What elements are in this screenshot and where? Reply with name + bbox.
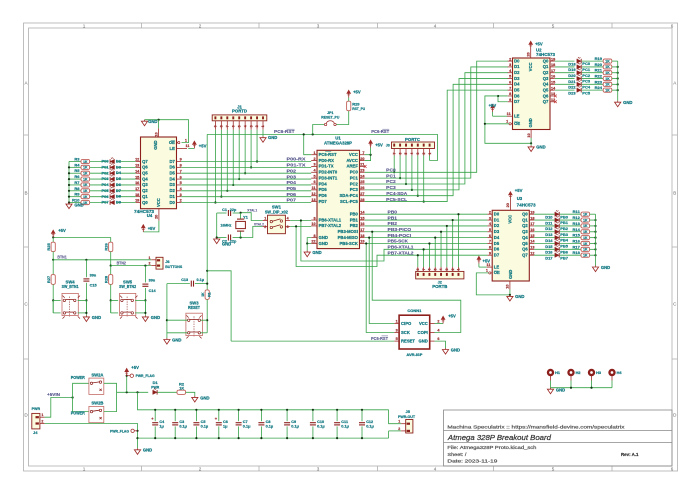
svg-text:PB6-XTAL1: PB6-XTAL1 xyxy=(319,217,342,222)
svg-text:R16: R16 xyxy=(572,238,580,243)
wire cap C9 vertical xyxy=(286,410,288,421)
svg-text:Q0: Q0 xyxy=(543,58,549,63)
wire RST vertical from J1 area xyxy=(206,134,208,290)
U2 pins xyxy=(508,57,556,127)
svg-text:11: 11 xyxy=(507,112,511,116)
svg-text:27: 27 xyxy=(360,192,364,196)
junction GND bus row 4 xyxy=(68,184,70,186)
junction +5VIN split xyxy=(72,396,74,398)
svg-text:P03: P03 xyxy=(287,174,297,180)
svg-text:2: 2 xyxy=(422,153,426,155)
J1 pin squares and stubs xyxy=(214,116,266,129)
resistor R28 xyxy=(109,275,113,285)
svg-text:J5: J5 xyxy=(406,409,411,414)
svg-text:0.1μ: 0.1μ xyxy=(366,425,374,429)
svg-text:+5V: +5V xyxy=(448,313,456,318)
svg-text:D21: D21 xyxy=(568,79,576,84)
wire bottom rail segment 9 xyxy=(362,437,389,439)
wire R29 to +5V xyxy=(348,98,350,102)
PWR_FLAG top symbol xyxy=(127,374,134,377)
capacitor C7 xyxy=(236,423,242,425)
junction SCK xyxy=(365,242,367,244)
junction J3 PC5 xyxy=(423,200,425,202)
svg-text:GND: GND xyxy=(418,338,427,343)
svg-text:AVCC: AVCC xyxy=(346,158,358,163)
svg-text:6: 6 xyxy=(398,153,402,155)
LED D4 xyxy=(110,169,114,175)
svg-text:1K: 1K xyxy=(583,236,588,240)
ground below SW3 xyxy=(164,338,170,344)
wire cap C4 vertical xyxy=(154,410,156,421)
svg-text:11: 11 xyxy=(185,144,189,148)
svg-text:4: 4 xyxy=(439,268,443,270)
junction PB7 riser xyxy=(417,254,419,256)
svg-text:VCC: VCC xyxy=(349,152,358,157)
wire row P05 resistor to LED to U4 xyxy=(69,190,81,192)
svg-text:PB1: PB1 xyxy=(388,215,398,221)
wire R28 to SW5 xyxy=(110,284,112,313)
svg-text:R4: R4 xyxy=(74,162,80,167)
svg-text:D4: D4 xyxy=(116,170,122,175)
svg-text:R12: R12 xyxy=(572,215,580,220)
junction SW4 right top xyxy=(85,299,87,301)
connector J1 PORTD body xyxy=(212,115,267,121)
svg-text:1K: 1K xyxy=(201,292,205,297)
junction cap C4 bottom xyxy=(154,437,156,439)
SW1 pin stubs xyxy=(263,217,291,230)
wire U2 Q1 to LED D19 xyxy=(555,66,575,68)
LED D12 xyxy=(555,222,559,228)
svg-text:H1: H1 xyxy=(555,371,560,375)
svg-text:1: 1 xyxy=(457,268,461,270)
svg-text:LE: LE xyxy=(514,114,520,119)
junction GND bus row 3 xyxy=(68,178,70,180)
wire LED D21 to R22 xyxy=(582,78,604,80)
svg-text:1: 1 xyxy=(313,151,315,155)
no-connect AREF xyxy=(364,165,367,168)
C15 labels xyxy=(90,273,97,287)
ground below U3 xyxy=(507,295,513,301)
wire U2 Q3 to LED D21 xyxy=(555,78,575,80)
svg-text:+5VIN: +5VIN xyxy=(47,392,60,397)
wire mounting hole bus xyxy=(551,387,613,389)
wire J2 riser PB0 xyxy=(457,214,459,267)
LED D20 labels xyxy=(568,73,591,78)
svg-text:D7: D7 xyxy=(170,159,176,164)
wire top rail segment 2 xyxy=(196,409,218,411)
svg-text:8: 8 xyxy=(313,234,315,238)
svg-text:R27: R27 xyxy=(46,275,51,283)
junction GND bus row 7 xyxy=(68,201,70,203)
wire net PC2 xyxy=(365,73,508,184)
+5V power at U4 LE xyxy=(193,141,197,148)
svg-text:1: 1 xyxy=(41,413,43,417)
svg-text:13: 13 xyxy=(135,164,139,168)
svg-text:D2: D2 xyxy=(514,70,520,75)
connector CONN1 body xyxy=(399,315,430,349)
junction cap C7 bottom xyxy=(238,437,240,439)
junction J3 PC2 xyxy=(405,183,407,185)
svg-text:C12: C12 xyxy=(366,420,373,424)
+5V power at R29 xyxy=(347,90,351,97)
LED D17 xyxy=(555,251,559,257)
junction cap C4 top xyxy=(154,409,156,411)
svg-text:18: 18 xyxy=(135,193,139,197)
svg-text:2: 2 xyxy=(451,268,455,270)
svg-text:D7: D7 xyxy=(116,188,122,193)
svg-text:P00-RX: P00-RX xyxy=(287,157,307,163)
svg-text:Q2: Q2 xyxy=(543,70,549,75)
svg-text:0.1μ: 0.1μ xyxy=(266,425,274,429)
svg-text:0.1μ: 0.1μ xyxy=(291,425,299,429)
svg-text:3: 3 xyxy=(317,466,320,471)
LED D15 labels xyxy=(545,244,569,249)
svg-text:+5V: +5V xyxy=(483,259,491,264)
svg-text:R15: R15 xyxy=(572,233,580,238)
svg-text:GND: GND xyxy=(508,270,513,279)
ground below crystal xyxy=(214,238,220,244)
+5V power buttons xyxy=(51,230,55,237)
wire U3 Q1 to LED D11 xyxy=(534,219,554,221)
svg-text:AVR-ISP: AVR-ISP xyxy=(406,353,422,357)
svg-text:PD1-TX: PD1-TX xyxy=(319,164,334,169)
IC U3 74HC573 body xyxy=(492,210,529,281)
wire SW3 right pins xyxy=(201,319,208,321)
svg-text:3: 3 xyxy=(287,225,289,229)
wire net PB7 from XTAL2 xyxy=(296,226,487,266)
junction PB1 riser xyxy=(452,219,454,221)
capacitor C11 xyxy=(334,423,340,425)
svg-text:PORTB: PORTB xyxy=(432,284,447,289)
LED D1 PWR xyxy=(153,388,157,394)
wire R14 to GND bus xyxy=(590,231,596,233)
svg-text:RESET_PU: RESET_PU xyxy=(321,115,339,119)
svg-text:Y1: Y1 xyxy=(243,214,249,219)
svg-text:R22: R22 xyxy=(595,74,603,79)
svg-text:PB3: PB3 xyxy=(560,232,569,237)
svg-text:1K: 1K xyxy=(583,253,588,257)
svg-text:Q0: Q0 xyxy=(142,200,148,205)
resistor R2 xyxy=(177,390,186,394)
svg-text:6: 6 xyxy=(671,23,674,28)
svg-text:PD6: PD6 xyxy=(319,193,328,198)
SW3 contacts xyxy=(186,315,201,338)
svg-text:74HC573: 74HC573 xyxy=(517,203,537,208)
junction cap C11 bottom xyxy=(336,437,338,439)
svg-text:4: 4 xyxy=(287,217,289,221)
junction U3 GND bus row 5 xyxy=(594,242,596,244)
svg-text:1K: 1K xyxy=(583,224,588,228)
capacitor C9 xyxy=(284,423,290,425)
junction PB5 riser xyxy=(428,242,430,244)
svg-text:PD7: PD7 xyxy=(319,199,328,204)
svg-text:20: 20 xyxy=(360,157,364,161)
svg-text:PB0: PB0 xyxy=(350,212,359,217)
resistor R14 xyxy=(581,230,590,234)
U4 pin 11 LE stub xyxy=(177,144,190,148)
svg-text:9: 9 xyxy=(509,98,511,102)
LED D7 labels xyxy=(101,188,121,193)
junction SW5 right bottom xyxy=(144,312,146,314)
svg-text:C15: C15 xyxy=(90,284,97,288)
junction J1 pin5 xyxy=(238,178,240,180)
wire net PB1 xyxy=(365,219,488,221)
svg-text:17: 17 xyxy=(530,222,534,226)
svg-text:Q1: Q1 xyxy=(522,217,528,222)
junction U2 GND bus row 1 xyxy=(617,66,619,68)
wire MOSI riser to CONN1 xyxy=(372,232,461,333)
svg-text:GND: GND xyxy=(319,235,328,240)
svg-text:PB5-SCK: PB5-SCK xyxy=(388,239,409,245)
wire net P07 from U4 to U1 xyxy=(181,202,311,204)
svg-text:0.1μ: 0.1μ xyxy=(197,278,205,282)
capacitor C3 xyxy=(172,423,178,425)
wire cap C8 vertical xyxy=(260,410,262,421)
resistor R15 xyxy=(581,236,590,240)
svg-text:PB7: PB7 xyxy=(560,255,569,260)
resistor R3 xyxy=(81,159,90,163)
svg-text:PB2: PB2 xyxy=(388,221,398,227)
svg-text:H3: H3 xyxy=(596,371,601,375)
svg-text:PC2: PC2 xyxy=(386,179,396,185)
svg-text:PC5: PC5 xyxy=(582,90,591,95)
svg-text:D22: D22 xyxy=(568,85,576,90)
wire U3 Q5 to LED D15 xyxy=(534,242,554,244)
wire U4 OE to GND loop xyxy=(145,120,189,143)
svg-text:6: 6 xyxy=(489,234,491,238)
junction U2 GND bus row 2 xyxy=(617,72,619,74)
wire J1 pin3 to P01 row xyxy=(250,130,252,168)
wire J1 pin2 to P00 row xyxy=(256,130,258,162)
svg-text:15: 15 xyxy=(530,234,534,238)
wire row P03 resistor to LED to U4 xyxy=(69,178,81,180)
svg-text:3: 3 xyxy=(396,329,398,333)
junction U3 GND bus row 2 xyxy=(594,225,596,227)
svg-text:P03: P03 xyxy=(101,176,109,181)
svg-text:PWR_FLAG: PWR_FLAG xyxy=(136,373,155,378)
svg-text:2: 2 xyxy=(149,262,151,266)
wire J4 pin1 to switches xyxy=(45,398,73,418)
wire U3 Q6 to LED D16 xyxy=(534,248,554,250)
wire to R26 xyxy=(110,237,112,242)
svg-text:C7: C7 xyxy=(243,420,248,424)
wire to SW2B xyxy=(73,398,89,412)
wire U2 D6 to OE GND leg xyxy=(485,96,531,143)
resistor R8 xyxy=(81,189,90,193)
wire top rail segment 1 xyxy=(175,409,196,411)
svg-text:1K: 1K xyxy=(83,166,88,170)
svg-text:PC4-SDA: PC4-SDA xyxy=(386,191,408,197)
svg-text:POWER: POWER xyxy=(71,411,85,416)
svg-text:P01-TX: P01-TX xyxy=(287,163,307,169)
wire U3 OE to GND xyxy=(476,273,510,295)
wire J1 pin4 to P02 row xyxy=(244,130,246,173)
wire crystal left vertical xyxy=(216,213,218,238)
connector J2 PORTB body xyxy=(416,271,464,279)
wire R23 to GND bus xyxy=(612,83,618,85)
svg-text:19: 19 xyxy=(530,210,534,214)
svg-text:C10: C10 xyxy=(317,420,324,424)
wire top rail segment 0 xyxy=(155,409,175,411)
wire R27 to SW4 xyxy=(52,284,54,313)
svg-text:SCK: SCK xyxy=(401,330,410,335)
svg-text:Q3: Q3 xyxy=(142,182,148,187)
resistor R6 xyxy=(81,177,90,181)
svg-text:1K: 1K xyxy=(583,248,588,252)
svg-text:D17: D17 xyxy=(545,255,553,260)
svg-text:6: 6 xyxy=(428,268,432,270)
wire C15 to SW4 xyxy=(85,283,87,313)
+5V power at U1 VCC xyxy=(369,140,373,147)
svg-text:PB5: PB5 xyxy=(560,244,569,249)
resistor R17 xyxy=(581,247,590,251)
C14 labels xyxy=(149,279,157,294)
svg-text:D5: D5 xyxy=(170,171,176,176)
ground GND near U4 xyxy=(141,120,147,126)
svg-text:B: B xyxy=(24,191,27,196)
wire net PB6 from XTAL1 xyxy=(301,221,488,262)
resistor R22 xyxy=(603,76,612,80)
svg-text:GND: GND xyxy=(143,448,152,453)
J4 pin squares and stubs xyxy=(36,413,45,424)
svg-text:PB0: PB0 xyxy=(388,209,398,215)
ground at CONN1 xyxy=(442,348,448,354)
svg-text:3: 3 xyxy=(489,216,491,220)
svg-text:P02: P02 xyxy=(101,170,109,175)
wire top rail to J5 pin1 xyxy=(389,410,402,424)
C7 labels xyxy=(243,420,251,428)
svg-text:D6: D6 xyxy=(494,247,500,252)
wire row P02 resistor to LED to U4 xyxy=(69,172,81,174)
svg-text:D7: D7 xyxy=(494,252,500,257)
resistor R20 xyxy=(603,65,612,69)
junction U2 GND net xyxy=(530,142,532,144)
junction PWR_FLAG top xyxy=(126,375,128,377)
svg-text:D5: D5 xyxy=(116,176,122,181)
wire U2 GND bus xyxy=(617,61,619,101)
svg-text:Q7: Q7 xyxy=(522,252,528,257)
svg-text:1K: 1K xyxy=(83,195,88,199)
wire SW5 right bottom to GND xyxy=(144,300,146,315)
svg-text:1K: 1K xyxy=(83,189,88,193)
resistor R19 xyxy=(603,59,612,63)
wire U2 OE to GND leg xyxy=(485,123,509,125)
svg-text:R17: R17 xyxy=(572,244,580,249)
wire J3 pin1 RST jog xyxy=(430,134,438,160)
svg-text:19: 19 xyxy=(360,240,364,244)
svg-text:POWER: POWER xyxy=(71,375,85,380)
+5V power at CONN1 xyxy=(441,316,445,323)
wire top rail segment 9 xyxy=(362,409,389,411)
svg-text:D20: D20 xyxy=(568,73,576,78)
wire SW3 left pins xyxy=(167,319,188,321)
mounting hole H2 xyxy=(567,369,574,381)
C10 labels xyxy=(317,420,325,428)
ground below R3-R10 xyxy=(66,203,72,209)
svg-text:GND: GND xyxy=(172,337,181,342)
svg-text:D11: D11 xyxy=(545,220,553,225)
C11 labels xyxy=(341,420,349,428)
svg-text:SW_DIP_x02: SW_DIP_x02 xyxy=(265,209,289,214)
svg-text:PC1: PC1 xyxy=(582,67,591,72)
wire J3 pin3 to PC4 xyxy=(417,156,419,196)
wire to R25 xyxy=(52,237,54,242)
U3 pins xyxy=(487,210,535,279)
svg-text:XTAL2: XTAL2 xyxy=(254,222,264,226)
junction hole bus xyxy=(590,387,592,389)
wire H3 to hole bus xyxy=(591,381,593,388)
wire U1 VCC AVCC to +5V xyxy=(365,155,371,161)
svg-text:1K: 1K xyxy=(583,242,588,246)
junction cap C11 top xyxy=(336,409,338,411)
LED D19 labels xyxy=(568,67,591,72)
wire R27 chain xyxy=(52,260,54,275)
svg-text:Machina Speculatrix :: https:/: Machina Speculatrix :: https://mansfield… xyxy=(447,425,625,430)
ground right of U3 resistors xyxy=(592,266,598,272)
mounting hole H3 xyxy=(588,369,595,381)
wire LED D17 to R18 xyxy=(560,254,581,256)
wire H1 to hole bus xyxy=(550,381,552,388)
svg-text:LE: LE xyxy=(170,146,176,151)
svg-text:PC0: PC0 xyxy=(582,61,591,66)
svg-text:20: 20 xyxy=(155,215,159,219)
svg-text:R18: R18 xyxy=(572,250,580,255)
svg-text:PC6-RST: PC6-RST xyxy=(371,336,388,342)
wire J2 riser PB7 xyxy=(417,255,419,267)
junction MISO xyxy=(368,237,370,239)
svg-text:1K: 1K xyxy=(583,213,588,217)
svg-text:13: 13 xyxy=(311,198,315,202)
junction cap C6 top xyxy=(218,409,220,411)
wire U1 GND pins join xyxy=(307,238,311,244)
svg-text:PORTD: PORTD xyxy=(232,109,247,114)
LED D10 xyxy=(555,210,559,216)
wire net BTN1 xyxy=(53,259,151,261)
+5V power at U2 LE xyxy=(491,105,495,112)
svg-text:PC0: PC0 xyxy=(386,167,396,173)
svg-text:8: 8 xyxy=(416,268,420,270)
svg-text:Q1: Q1 xyxy=(543,64,549,69)
svg-text:1μ: 1μ xyxy=(223,425,228,429)
wire C13 left vertical to SW3 xyxy=(166,284,168,338)
svg-text:1K: 1K xyxy=(583,230,588,234)
svg-text:39n: 39n xyxy=(90,273,97,277)
wire R1 to SW3 right xyxy=(206,299,208,332)
wire J2 riser PB6 xyxy=(423,249,425,267)
junction cap C9 top xyxy=(286,409,288,411)
svg-text:8: 8 xyxy=(220,125,224,127)
svg-text:1K: 1K xyxy=(83,183,88,187)
wire U3 pin10 down xyxy=(509,290,511,295)
svg-text:1K: 1K xyxy=(605,59,610,63)
wire LED D15 to R16 xyxy=(560,242,581,244)
junction GND bus row 5 xyxy=(68,190,70,192)
svg-text:15: 15 xyxy=(360,216,364,220)
svg-text:1μ: 1μ xyxy=(159,425,164,429)
svg-text:D14: D14 xyxy=(545,238,553,243)
wire C13 to RST vertical xyxy=(195,283,207,285)
junction SW3 right top xyxy=(206,319,208,321)
svg-text:Q7: Q7 xyxy=(543,99,549,104)
svg-text:2: 2 xyxy=(255,125,259,127)
svg-text:19: 19 xyxy=(135,199,139,203)
svg-text:PWR: PWR xyxy=(151,384,159,389)
svg-text:R3: R3 xyxy=(74,157,80,162)
svg-text:PB5-SCK: PB5-SCK xyxy=(340,241,358,246)
LED D5 xyxy=(110,175,114,181)
svg-text:D0: D0 xyxy=(170,200,176,205)
svg-text:U4: U4 xyxy=(147,213,153,218)
